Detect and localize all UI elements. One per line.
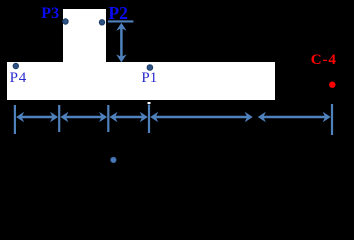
white speck above tick 4 [148,102,151,104]
point P1 dot [147,65,153,71]
point P2 dot [99,20,104,25]
dimension arrow segment 3 (tick3-tick4) [110,112,148,122]
detached blue dot below dimension line [111,157,116,162]
point P3 dot [63,19,68,24]
P2 dimension top reference bar (underline) [108,20,133,22]
label P3 [41,6,59,22]
dimension arrow segment 5 (midgap-tick5) [258,112,331,122]
point P4 dot [13,63,18,68]
white T-profile horizontal bar [7,62,275,100]
label P2 [108,5,127,23]
label C-4 [311,53,337,68]
dimension arrow segment 1 (tick1-tick2) [16,112,58,122]
dimension arrow segment 2 (tick2-tick3) [60,112,107,122]
white T-profile vertical stem [63,9,106,62]
dimension tick 2 [58,105,60,132]
dimension tick 3 [107,105,109,132]
vertical double-headed dimension arrow under P2 [116,23,126,63]
dimension tick 5 (right end) [331,104,333,135]
point C-4 red dot [329,82,335,88]
label P1 [141,71,157,86]
dimension tick 1 [14,105,16,134]
dimension arrow segment 4 (tick4-midgap) [150,112,253,122]
label P4 [10,71,27,86]
dimension tick 4 [148,105,150,134]
